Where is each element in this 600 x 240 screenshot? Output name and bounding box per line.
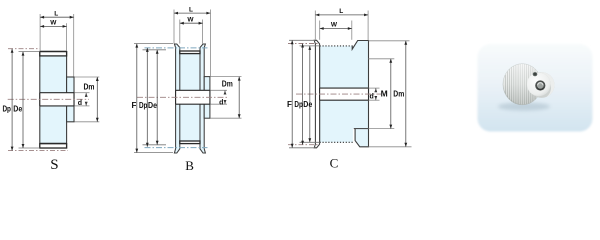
dimension De (C)	[309, 46, 311, 142]
photo pulley hub face	[527, 73, 551, 97]
svg-text:L: L	[54, 10, 58, 17]
pulley S centerline	[8, 98, 89, 100]
dimension L (S)	[40, 16, 74, 18]
photo pulley shadow	[498, 102, 550, 110]
svg-text:F: F	[287, 100, 292, 109]
pulley C toothed body left edge	[319, 46, 321, 142]
pulley C edges across bore	[319, 88, 321, 100]
svg-text:W: W	[331, 22, 338, 29]
pulley B right flange	[200, 44, 205, 153]
svg-text:M: M	[381, 88, 388, 98]
dimension L (C)	[315, 14, 368, 16]
dimension De (S)	[22, 52, 24, 148]
svg-text:Dp: Dp	[294, 100, 303, 109]
dimension L (B)	[174, 12, 210, 14]
photo pulley knurled disc	[503, 64, 542, 105]
svg-text:F: F	[132, 101, 137, 110]
dimension d (S)	[85, 93, 88, 97]
photo pulley hub rim	[529, 72, 555, 98]
pulley B body	[180, 51, 200, 144]
dimension Dm (S) extensions	[75, 76, 100, 78]
dimension W (C) extensions	[319, 21, 321, 40]
pulley B top teeth band	[180, 51, 200, 54]
pulley B left flange	[174, 44, 179, 153]
dimension Dp (S) extensions	[8, 48, 40, 50]
dimension Dm (B) extensions	[210, 76, 241, 78]
svg-text:Dm: Dm	[393, 89, 404, 98]
dimension De (C) extensions	[300, 45, 320, 47]
pulley S bore band	[40, 93, 74, 106]
photo panel	[478, 44, 593, 132]
svg-text:d: d	[369, 94, 373, 101]
pulley C disc fill	[352, 41, 368, 147]
pulley C teeth bottom dotted	[320, 141, 353, 143]
svg-text:W: W	[187, 17, 194, 24]
pulley C teeth top dotted	[320, 45, 353, 47]
svg-text:L: L	[189, 6, 193, 13]
svg-text:S: S	[50, 157, 58, 172]
svg-text:L: L	[339, 8, 343, 15]
svg-text:Dm: Dm	[84, 83, 95, 92]
svg-text:De: De	[303, 100, 312, 109]
pulley C disc outline	[352, 41, 368, 147]
dimension d (C)	[374, 88, 377, 92]
pulley C centerline	[296, 93, 381, 95]
dimension De (B)	[156, 50, 158, 145]
svg-text:De: De	[148, 101, 157, 110]
svg-text:d: d	[219, 99, 223, 106]
dimension W (S)	[40, 25, 67, 27]
svg-text:De: De	[13, 105, 22, 114]
pulley B pitch line bottom	[145, 147, 208, 149]
pulley C toothed body fill	[320, 46, 353, 142]
dimension Dm (B)	[238, 77, 240, 119]
pulley S top teeth band	[40, 52, 67, 56]
dimension Dm (C)	[405, 41, 407, 147]
dimension F (B) extensions	[134, 43, 173, 45]
dimension F (C) extensions	[289, 39, 315, 41]
dimension F (B)	[136, 44, 138, 153]
dimension Dp (C)	[302, 44, 304, 145]
pulley C bore band	[320, 88, 369, 100]
photo pulley bore	[535, 80, 545, 90]
pulley B bore band	[176, 90, 210, 104]
dimension d (C) extensions	[369, 87, 380, 89]
dimension De (S) extensions	[19, 51, 40, 53]
dimension L (S) extension lines	[39, 14, 41, 51]
dimension M (C) extensions	[369, 58, 395, 60]
dimension W (C)	[320, 28, 352, 30]
pulley S hub	[67, 77, 74, 122]
dimension Dm (S)	[96, 77, 98, 122]
dimension d (B)	[224, 91, 227, 95]
pulley C flange	[314, 40, 319, 148]
dimension Dp (S)	[11, 49, 13, 151]
dimension W (B)	[180, 22, 203, 24]
svg-text:Dp: Dp	[2, 105, 11, 114]
dimension F (C)	[291, 40, 293, 148]
dimension W (B) extensions	[179, 20, 181, 44]
pulley B bottom teeth band	[180, 141, 200, 144]
pulley C hub notch line	[354, 128, 369, 130]
dimension W (S) extension line	[66, 23, 68, 51]
pulley B hub	[204, 77, 210, 119]
svg-text:B: B	[185, 158, 194, 172]
dimension M (C)	[390, 59, 392, 129]
dimension L (C) extensions	[314, 11, 316, 40]
dimension d (S) extensions	[75, 92, 90, 94]
svg-text:C: C	[330, 156, 339, 171]
dimension Dm (C) extensions	[369, 40, 410, 42]
dimension Dp (B)	[146, 48, 148, 147]
svg-text:d: d	[78, 100, 82, 107]
pulley S bottom teeth band	[40, 144, 67, 148]
dimension d (B) extensions	[210, 89, 227, 91]
dimension L (B) extensions	[173, 10, 175, 44]
svg-text:Dp: Dp	[139, 101, 148, 110]
dimension De (B) extensions	[143, 49, 167, 51]
pulley B pitch line top	[145, 47, 208, 49]
pulley S hub face edge across bore	[73, 93, 75, 106]
photo pulley set screw hole	[533, 72, 538, 76]
svg-text:Dm: Dm	[222, 80, 233, 89]
pulley B edges across bore	[175, 90, 177, 104]
pulley S body	[40, 52, 67, 148]
dimension Dp (C) extensions	[288, 43, 320, 45]
svg-text:W: W	[50, 20, 57, 27]
pulley B centerline	[137, 96, 227, 98]
